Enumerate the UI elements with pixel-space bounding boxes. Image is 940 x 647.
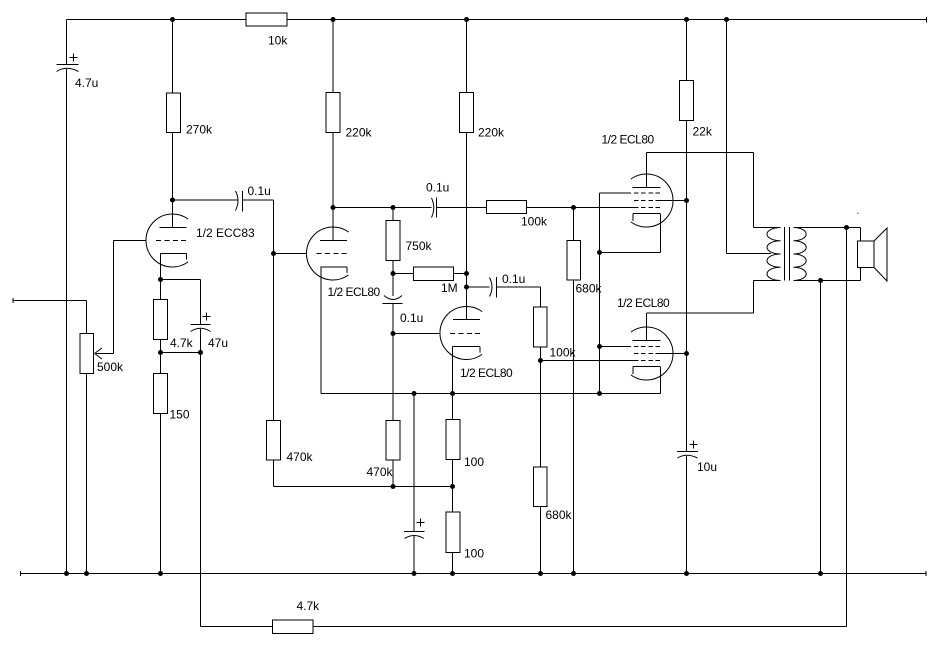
svg-text:100: 100 xyxy=(464,547,484,561)
wire: ground bottom rail xyxy=(20,571,22,576)
node dot: speaker top/NFB xyxy=(844,225,849,230)
tube V3 1/2 ECL80 plate bar xyxy=(453,319,480,321)
tube V5 screen lead to right xyxy=(660,353,687,355)
resistor R4 150 xyxy=(154,374,168,414)
node dot: C3 bottom/NFB xyxy=(198,350,203,355)
svg-text:0.1u: 0.1u xyxy=(502,272,525,286)
wire: B+ top rail right segment xyxy=(287,19,927,21)
wire: R17 down screens line to C8 xyxy=(686,121,688,452)
potentiometer VR1 wiper arrow xyxy=(95,348,103,354)
node dot: ground/R4 xyxy=(158,571,163,576)
node dot: R6 top xyxy=(391,205,396,210)
capacitor C6 0.1u curved plate xyxy=(490,278,493,297)
wire: rail drop to R5 xyxy=(332,20,334,93)
capacitor C5 0.1u straight plate xyxy=(383,303,403,305)
wire: bus drop to C7 xyxy=(413,394,415,532)
tube V2 1/2 ECL80 plate lead and bar xyxy=(332,208,334,241)
svg-text:680k: 680k xyxy=(546,508,573,522)
tube V4 suppressor grid dashed xyxy=(634,192,660,194)
resistor R17 22k (screen feed) xyxy=(680,81,694,121)
wire: C6 to R12 100k xyxy=(497,286,541,288)
resistor R10 1M (horizontal) xyxy=(414,267,454,281)
svg-text:1/2 ECL80: 1/2 ECL80 xyxy=(328,285,381,299)
capacitor C3 47u curved plate xyxy=(191,328,211,331)
wire: junction to C3 bottom xyxy=(161,352,201,354)
node dot: V1 plate xyxy=(170,198,175,203)
svg-text:0.1u: 0.1u xyxy=(400,311,423,325)
tube V5 envelope xyxy=(631,327,673,380)
svg-text:10u: 10u xyxy=(697,460,717,474)
wire: B+ top rail left segment xyxy=(67,19,247,21)
svg-text:1/2 ECL80: 1/2 ECL80 xyxy=(617,296,670,310)
resistor R1 10k (in B+ rail) xyxy=(246,13,287,26)
node dot: V5 cathode/bus xyxy=(597,391,602,396)
wire: R8 bottom L-run to cathode divider xyxy=(273,460,275,487)
svg-text:1M: 1M xyxy=(441,281,458,295)
wire: V2 grid node down to R8 470k xyxy=(273,254,275,421)
node dot: R16 top xyxy=(571,205,576,210)
node dot: R6/R10/C5 xyxy=(391,271,396,276)
svg-text:100k: 100k xyxy=(550,346,577,360)
wire: junction to R4 xyxy=(160,353,162,374)
wire: V1 plate node to C2 xyxy=(173,199,239,201)
tube V4 screen lead to right xyxy=(660,200,687,202)
node dot: ground/VR1 xyxy=(84,571,89,576)
tube V4 cathode xyxy=(633,213,660,215)
node dot: V3 grid xyxy=(391,331,396,336)
tube V1 envelope xyxy=(146,214,188,267)
node dot: ground/C8 xyxy=(684,571,689,576)
tube V4 screen grid dashed xyxy=(634,200,660,202)
wire: V5 grid node to tube xyxy=(541,360,635,362)
wire: C3 bottom through junction down to NFB line xyxy=(200,329,202,627)
wire: C5 to V3 grid node xyxy=(392,304,394,334)
wire: suppressor/cathode vertical x=599.5 xyxy=(599,193,601,394)
wire: top rail right end tick xyxy=(926,17,928,23)
node dot: R10/V3 plate xyxy=(464,271,469,276)
potentiometer VR1 500k body xyxy=(80,334,94,374)
wire: NFB line right segment xyxy=(313,626,847,628)
tube V3 envelope xyxy=(440,307,482,360)
wire: rail drop to R17 22k xyxy=(686,20,688,81)
node dot: ground/C1 xyxy=(64,571,69,576)
speaker SP1 driver box xyxy=(858,241,875,268)
wire: V4 plate to transformer top xyxy=(647,152,754,154)
wire: cathode node to R3 xyxy=(160,280,162,300)
tube V1 1/2 ECC83 plate lead and bar xyxy=(172,200,174,228)
wire: B+ drop to transformer center tap xyxy=(726,20,728,254)
stray mark xyxy=(857,213,859,215)
wire: VR1 bottom to ground rail xyxy=(86,374,88,574)
svg-text:500k: 500k xyxy=(97,360,124,374)
wire: R10 to V3 plate node xyxy=(454,273,467,275)
resistor R11 220k (V3 plate load) xyxy=(460,93,474,133)
tube V5 cathode xyxy=(633,366,660,368)
resistor R8 470k (V2 grid leak) xyxy=(267,421,281,461)
tube V3 cathode xyxy=(453,346,481,348)
wire: R11 down to V3 plate node (crosses 207.5 wire) xyxy=(466,133,468,274)
tube V4 envelope xyxy=(631,174,673,227)
wire: V3 grid node down to R9 470k xyxy=(392,334,394,421)
svg-text:1/2 ECC83: 1/2 ECC83 xyxy=(196,226,255,240)
node dot: rail/R17 xyxy=(684,17,689,22)
capacitor C3 47u plates xyxy=(191,324,211,326)
node dot: ground/C7 xyxy=(412,571,417,576)
resistor R2 270k xyxy=(167,93,181,133)
svg-text:220k: 220k xyxy=(478,126,505,140)
svg-text:4.7k: 4.7k xyxy=(297,599,321,613)
resistor R14 100 (upper) xyxy=(446,420,460,460)
wire: R16 to ground rail xyxy=(573,280,575,574)
capacitor C3 plus sign xyxy=(203,316,211,318)
tube V3 grid dashed line xyxy=(450,333,481,335)
capacitor C1 plus sign xyxy=(70,57,78,59)
tube V2 grid lead xyxy=(274,253,307,255)
capacitor C2 0.1u curved plate xyxy=(236,191,239,211)
node dot: ground/speaker xyxy=(818,571,823,576)
node dot: ground/R13 xyxy=(538,571,543,576)
resistor R13 680k xyxy=(534,467,548,507)
svg-text:750k: 750k xyxy=(406,239,433,253)
wire: 1M node to R10 xyxy=(393,273,414,275)
wire: R7 to V4 grid xyxy=(527,207,635,209)
resistor R15 100 (lower) xyxy=(446,512,460,553)
node dot: V5 grid xyxy=(538,358,543,363)
svg-text:0.1u: 0.1u xyxy=(426,181,449,195)
node dot: V3 plate tap to C6 xyxy=(464,285,469,290)
wire: speaker top terminal down to NFB xyxy=(846,228,848,627)
svg-text:4.7u: 4.7u xyxy=(75,76,98,90)
tube V2 cathode xyxy=(321,266,348,268)
tube V3 plate lead xyxy=(466,274,468,320)
wire: R15 to ground rail xyxy=(452,553,454,574)
wire: C8 to ground rail xyxy=(686,456,688,574)
wire: speaker bottom terminal to ground rail xyxy=(820,281,822,574)
capacitor C8 10u plate xyxy=(677,451,698,453)
wire: R2 to V1 plate node xyxy=(172,133,174,201)
speaker SP1 cone xyxy=(874,228,887,281)
capacitor C4 0.1u curved plate xyxy=(432,198,434,218)
tube V1 grid dashed line xyxy=(156,240,187,242)
node dot: V1 cathode xyxy=(158,277,163,282)
wire: cathode bus y=393.5 xyxy=(321,393,661,395)
capacitor C1 4.7u plate xyxy=(57,64,79,66)
capacitor C8 plus sign xyxy=(690,444,698,446)
wire: R13 to ground rail xyxy=(540,507,542,574)
wire: VR1 wiper to V1 grid xyxy=(96,353,114,355)
wire: R6 to 1M node xyxy=(392,261,394,274)
resistor R16 680k (V4 grid leak) xyxy=(567,241,581,281)
tube V1 cathode xyxy=(160,253,187,255)
svg-text:150: 150 xyxy=(170,408,190,422)
wire: divider mid junction riser xyxy=(452,394,454,420)
wire: V2 plate node to coupling network xyxy=(333,207,432,209)
wire: R3 to junction xyxy=(160,340,162,353)
tube V4 plate lead and bar xyxy=(646,153,648,188)
wire: R4 to ground rail xyxy=(160,414,162,574)
resistor R7 100k (horizontal) xyxy=(487,201,527,214)
svg-text:680k: 680k xyxy=(576,282,603,296)
node dot: divider mid xyxy=(450,484,455,489)
resistor R9 470k (V3 grid leak) xyxy=(386,421,400,461)
resistor R12 100k xyxy=(534,307,548,347)
tube V4 control grid dashed xyxy=(634,207,660,209)
wire: T1 secondary bottom lead to speaker xyxy=(794,280,861,282)
tube V5 suppressor lead to left xyxy=(600,346,632,348)
resistor R18 4.7k (feedback) xyxy=(273,620,314,634)
node dot: V2 grid xyxy=(271,251,276,256)
node dot: speaker bottom/ground xyxy=(818,278,823,283)
capacitor C8 10u curved plate xyxy=(678,455,698,458)
node dot: rail/R2 xyxy=(170,17,175,22)
svg-text:470k: 470k xyxy=(287,450,314,464)
node dot: ground/R16 xyxy=(571,571,576,576)
wire: V3 grid node to tube xyxy=(393,333,440,335)
svg-text:270k: 270k xyxy=(186,123,213,137)
capacitor C1 curved plate xyxy=(57,68,79,71)
node dot: R3/R4 junction xyxy=(158,350,163,355)
svg-text:22k: 22k xyxy=(693,125,713,139)
resistor R6 750k xyxy=(386,221,400,261)
capacitor C4 0.1u straight plate xyxy=(436,198,438,218)
tube V5 plate lead and bar xyxy=(646,313,648,341)
wire: C4 to R7 100k xyxy=(437,207,487,209)
svg-text:0.1u: 0.1u xyxy=(248,184,271,198)
wire: input line with end tick xyxy=(12,298,14,303)
wire: R12 to V5 grid node xyxy=(540,347,542,361)
wire: rail drop to R11 xyxy=(466,20,468,93)
svg-text:10k: 10k xyxy=(268,34,288,48)
resistor R3 4.7k (cathode) xyxy=(154,300,168,340)
tube V2 envelope xyxy=(306,227,348,280)
wire: T1 secondary top lead to speaker xyxy=(794,227,861,229)
svg-text:220k: 220k xyxy=(346,126,373,140)
wire: V3 plate tap to C6 xyxy=(467,286,490,288)
node dot: V4 screen xyxy=(684,198,689,203)
tube V2 grid dashed line xyxy=(317,253,348,255)
capacitor C2 0.1u straight plate xyxy=(242,191,244,212)
node dot: bus/R14 xyxy=(450,391,455,396)
wire: drop from rail to C1 xyxy=(66,20,68,65)
node dot: rail/R11 xyxy=(464,17,469,22)
capacitor C7 plus sign xyxy=(417,522,425,524)
wire: R5 to V2 plate node xyxy=(332,133,334,208)
wire: rail drop to R16 680k upper xyxy=(573,208,575,241)
wire: V1 cathode node to C3 branch xyxy=(161,279,201,281)
svg-text:1/2 ECL80: 1/2 ECL80 xyxy=(460,366,513,380)
node dot: rail/center-tap xyxy=(724,17,729,22)
svg-text:100: 100 xyxy=(464,455,484,469)
wire: C1 bottom to ground rail xyxy=(66,69,68,574)
resistor R5 220k (V2 plate load) xyxy=(326,93,340,133)
capacitor C6 0.1u straight plate xyxy=(496,277,498,298)
wire: rail drop to R2 xyxy=(172,20,174,94)
transformer T1 primary winding xyxy=(767,228,781,281)
wire: R9 bottom to divider junction xyxy=(392,460,394,487)
node dot: R9 bottom xyxy=(391,484,396,489)
capacitor C5 0.1u curved plate xyxy=(384,296,402,300)
svg-text:4.7k: 4.7k xyxy=(170,336,194,350)
svg-text:47u: 47u xyxy=(208,336,228,350)
wire: C2 to V2 grid corner xyxy=(243,199,274,201)
svg-text:100k: 100k xyxy=(521,215,548,229)
wire: V4 cathode to suppressor line xyxy=(600,252,661,254)
wire: R14 to mid junction xyxy=(452,460,454,513)
capacitor C7 curved plate xyxy=(405,536,425,539)
capacitor C7 electrolytic plate xyxy=(404,531,425,533)
transformer T1 secondary winding xyxy=(794,228,807,281)
wire: C7 to ground rail xyxy=(413,536,415,574)
tube V4 suppressor lead to left xyxy=(600,192,632,194)
wire: V5 plate to transformer bottom xyxy=(647,312,754,314)
wire: V5 grid node down to R13 xyxy=(540,361,542,468)
tube V5 control grid dashed xyxy=(634,360,660,362)
wire: drop from V2 plate wire to R6 750k xyxy=(392,208,394,221)
node dot: bus/C7 xyxy=(412,391,417,396)
node dot: V5 screen xyxy=(684,351,689,356)
node dot: V5 suppressor xyxy=(597,344,602,349)
svg-text:470k: 470k xyxy=(367,465,394,479)
tube V5 suppressor grid dashed xyxy=(634,346,660,348)
tube V5 screen grid dashed xyxy=(634,353,660,355)
svg-text:1/2 ECL80: 1/2 ECL80 xyxy=(602,133,655,147)
node dot: ground/R15 xyxy=(450,571,455,576)
wire: NFB feedback line xyxy=(201,626,273,628)
node dot: V4 cathode/suppressor xyxy=(597,250,602,255)
transformer T1 core xyxy=(784,227,786,281)
wire: 1M node to C5 xyxy=(392,274,394,297)
node dot: rail/R5 xyxy=(331,17,336,22)
node dot: V2 plate xyxy=(331,205,336,210)
